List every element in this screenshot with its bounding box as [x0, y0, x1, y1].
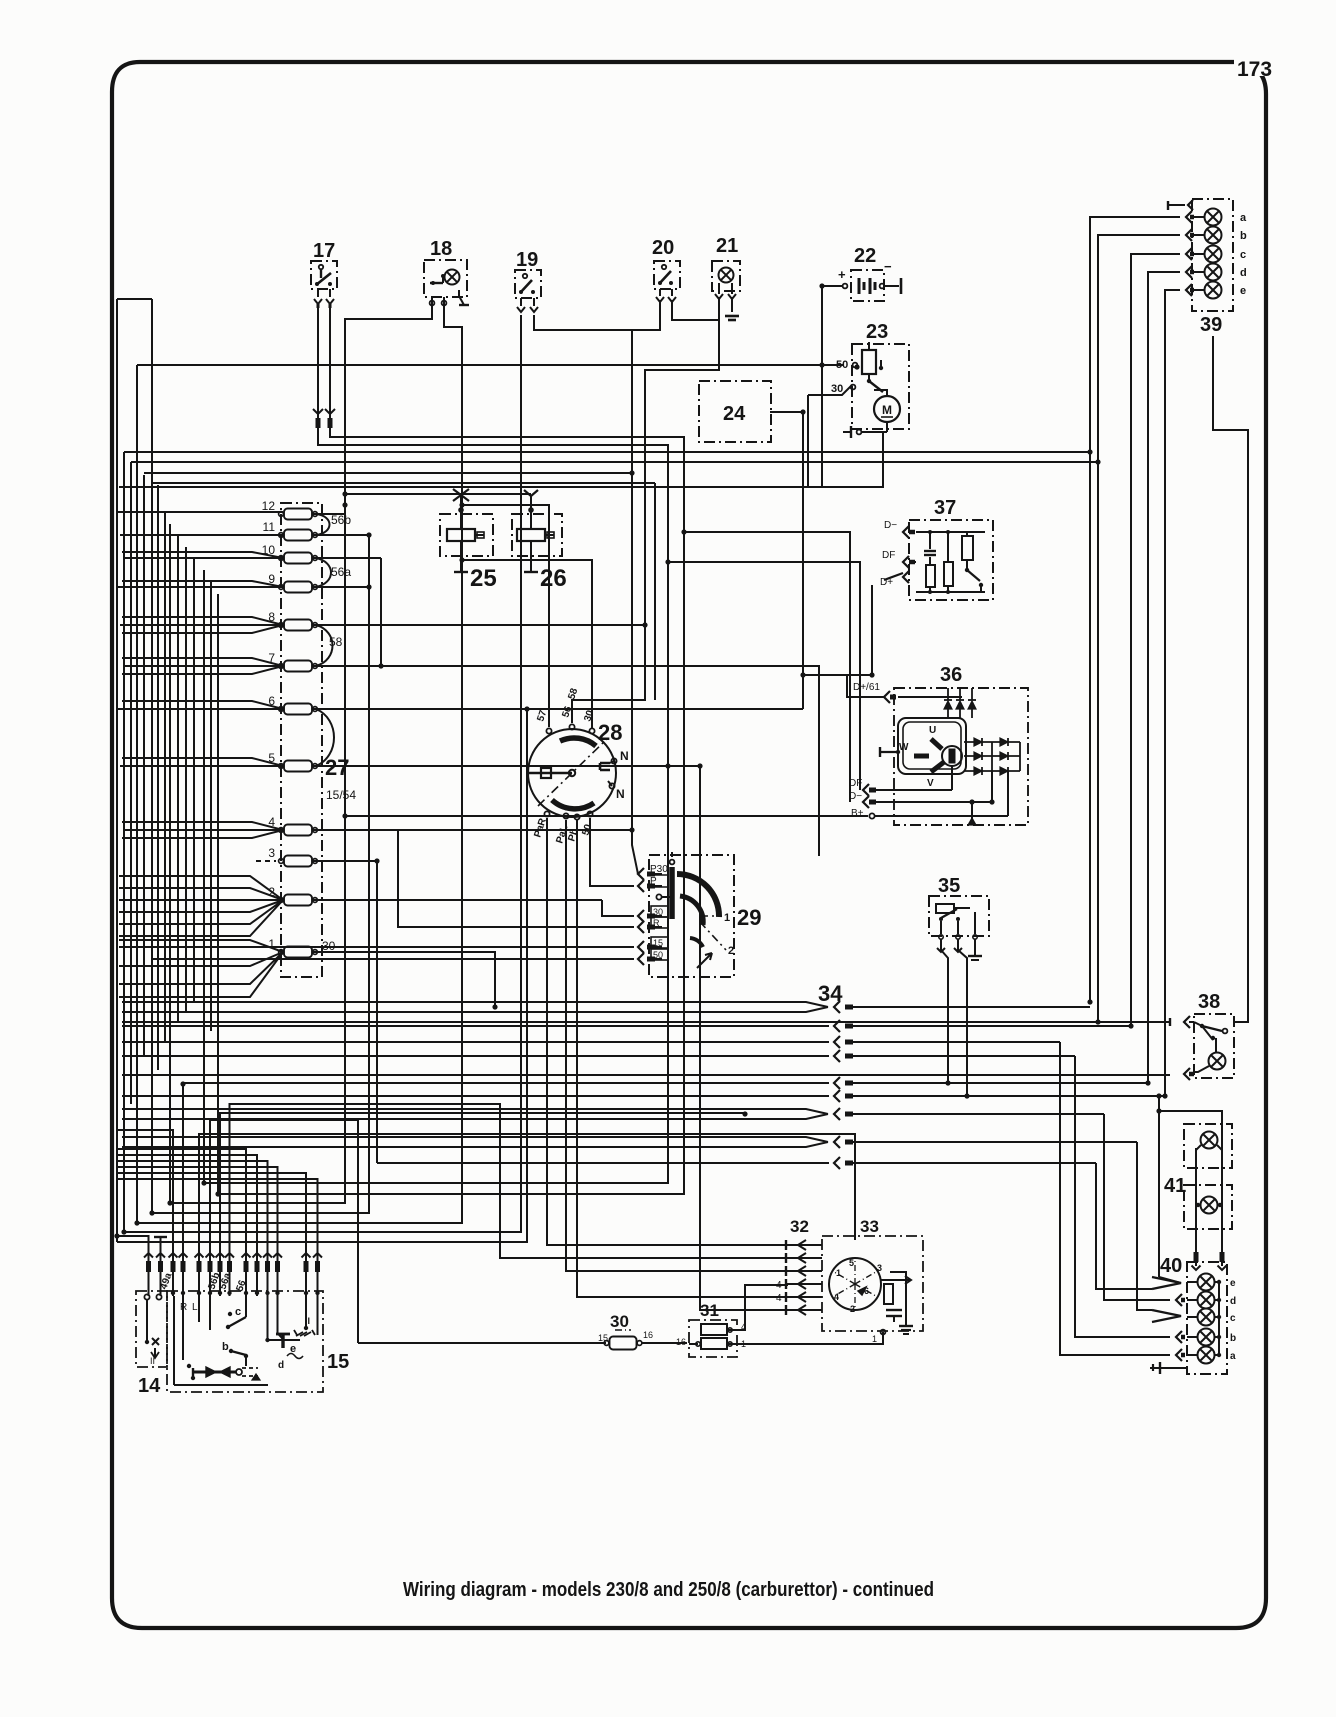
wire vertical x131: [130, 462, 132, 1104]
svg-text:−: −: [884, 259, 892, 274]
lamp cluster 39: [1168, 199, 1247, 311]
fuse unit 31: [689, 1320, 739, 1357]
svg-text:30: 30: [610, 1312, 629, 1331]
bus wire row y1075: [122, 1074, 1170, 1076]
wire fuse5 out: [313, 765, 700, 767]
fuse 12: [284, 509, 312, 520]
svg-text:50: 50: [653, 950, 663, 960]
switch 19: [515, 270, 541, 312]
svg-text:D+: D+: [880, 577, 893, 588]
wire motor ground feed: [119, 432, 883, 487]
lamp cluster 40: [1150, 1262, 1236, 1374]
svg-text:4: 4: [834, 1292, 839, 1302]
bus wire row y1142 right segment: [853, 1141, 1137, 1143]
svg-text:L: L: [192, 1302, 198, 1313]
terminal P switch29: [638, 880, 644, 892]
svg-text:30: 30: [653, 907, 663, 917]
svg-text:II: II: [150, 1356, 155, 1366]
svg-text:1: 1: [741, 1339, 746, 1349]
svg-text:b: b: [1240, 230, 1247, 242]
wire fan-in fuse 2: [119, 876, 283, 936]
wire vertical x165: [164, 512, 166, 1042]
bus wire row y1096 right segment: [853, 1095, 1165, 1097]
svg-text:2: 2: [728, 945, 734, 957]
fuse 8: [284, 620, 312, 631]
svg-text:e: e: [1240, 285, 1246, 297]
regulator 37: [884, 520, 993, 600]
wire to alternator D+61: [803, 675, 884, 697]
svg-text:b: b: [222, 1341, 229, 1353]
inline connectors below switch 17: [313, 409, 323, 414]
bus wire row y1163: [377, 1162, 829, 1164]
svg-text:c: c: [1240, 249, 1246, 261]
wire vertical x137: [136, 365, 138, 1223]
svg-text:W: W: [899, 742, 909, 753]
svg-text:3: 3: [268, 846, 275, 860]
wire fuse11 out: [313, 534, 369, 536]
switch 17 turn signal: [311, 261, 337, 308]
wire vertical x144: [143, 475, 145, 1056]
distributor 33: [822, 1236, 923, 1334]
wire lamp harness a: [1090, 217, 1180, 1002]
wire switch20 junction to headlamp switch: [632, 330, 638, 874]
fuse 4: [284, 825, 312, 836]
bus wire row y1026 right segment: [853, 1025, 1131, 1027]
svg-text:25: 25: [470, 565, 497, 592]
bus wire row y1042 right segment: [853, 1041, 1060, 1043]
svg-text:D−: D−: [849, 791, 862, 802]
wire unit41 to unit40 right: [1221, 1124, 1223, 1266]
svg-text:5: 5: [268, 751, 275, 765]
wire fuse31-1 lead to distributor: [739, 1332, 883, 1344]
svg-text:56b: 56b: [331, 513, 351, 527]
wire row1142 to cluster40 c: [1137, 1142, 1152, 1310]
svg-text:18: 18: [430, 238, 452, 260]
bus wire row y1056 right segment: [853, 1055, 1075, 1057]
wire vertical x124: [123, 452, 125, 1232]
wire long top bus b: [131, 461, 1098, 463]
bus wire row y1083 right segment: [853, 1082, 1148, 1084]
wire fuse3 out: [313, 861, 377, 1163]
svg-text:P: P: [650, 876, 657, 887]
wire fuse1 out: [313, 952, 495, 1007]
svg-text:50: 50: [836, 359, 848, 371]
svg-text:5: 5: [849, 1258, 854, 1268]
wire fuse feed y766: [120, 765, 283, 767]
page number 173: [1234, 52, 1278, 76]
box 24: [699, 381, 771, 442]
wire unit35 lead1: [941, 944, 948, 1083]
svg-text:11: 11: [263, 520, 276, 534]
wire regulator DF feed: [668, 562, 860, 790]
fuse unit 25: [440, 514, 493, 572]
terminal 50 switch29: [638, 953, 644, 965]
svg-text:1: 1: [724, 912, 730, 924]
svg-text:16: 16: [643, 1330, 653, 1340]
svg-text:4: 4: [268, 815, 275, 829]
wire terminal 220 feed to coil fuse: [220, 1113, 745, 1251]
bus wire row y1142: [122, 1137, 828, 1147]
switch unit 15: [167, 1291, 323, 1392]
svg-text:4: 4: [741, 1322, 746, 1332]
svg-text:29: 29: [737, 905, 761, 930]
wire row6 feed to plug connector: [700, 766, 788, 1310]
wire switch19 left lead: [124, 315, 521, 1232]
fuse loop 56a: [316, 558, 331, 587]
svg-text:1: 1: [872, 1334, 877, 1344]
wire terminal 229 feed: [230, 1104, 789, 1258]
svg-text:d: d: [1240, 267, 1247, 279]
svg-text:35: 35: [938, 875, 960, 897]
terminal 30 switch29: [638, 910, 644, 922]
wire fuse10 out: [313, 558, 381, 666]
fuse loop 15-54: [316, 709, 334, 766]
connector arrow row y1142: [834, 1136, 840, 1148]
wire fuse4 out: [313, 829, 632, 831]
wire fuse6 out: [313, 708, 803, 710]
fuse loop 56b: [316, 514, 330, 535]
wire vertical x218: [217, 594, 219, 1194]
svg-text:56: 56: [560, 705, 574, 719]
bus wire row y1007: [122, 1002, 828, 1012]
svg-text:17: 17: [313, 240, 335, 262]
alternator 36: [863, 688, 1028, 825]
page border frame: [112, 62, 1266, 1628]
middle vertical 369: [152, 535, 369, 1213]
wire terminal 199 feed to distributor: [199, 1134, 855, 1251]
svg-text:Pb: Pb: [566, 827, 580, 843]
svg-text:d: d: [278, 1360, 284, 1371]
wire branch to lamps 41: [1159, 1111, 1222, 1124]
wire PaL lead: [566, 820, 788, 1271]
wire unit35 lead2: [958, 944, 967, 1096]
bus wire row y1007 right segment: [853, 1006, 1090, 1008]
svg-text:26: 26: [540, 565, 567, 592]
svg-text:b: b: [1230, 1333, 1236, 1344]
svg-text:2: 2: [850, 1304, 855, 1314]
fuse 10: [284, 553, 312, 564]
terminal arrows above units 14 and 15: [149, 1251, 318, 1296]
svg-text:R: R: [653, 918, 660, 928]
svg-text:a: a: [1230, 1351, 1236, 1362]
svg-text:c: c: [1230, 1313, 1236, 1324]
svg-text:56a: 56a: [331, 565, 351, 579]
wire switch18 right lead: [137, 301, 462, 1223]
wire switch17 right lead: [218, 303, 684, 1194]
svg-text:22: 22: [854, 245, 876, 267]
svg-text:N: N: [616, 787, 625, 801]
svg-text:16: 16: [676, 1337, 686, 1347]
wire vertical x117: [116, 299, 118, 1242]
wire fuse feed y587: [117, 586, 283, 588]
svg-text:D−: D−: [884, 520, 897, 531]
wire vertical x158: [157, 485, 159, 1070]
svg-text:6: 6: [268, 694, 275, 708]
svg-text:d: d: [1230, 1296, 1236, 1307]
wire fuse feed y535: [120, 534, 283, 536]
junction dots: [819, 362, 824, 367]
wire terminal 210 feed to fuse 30: [210, 1120, 358, 1343]
svg-text:50: 50: [580, 823, 594, 837]
svg-text:1: 1: [836, 1268, 841, 1278]
fuse loop 58: [316, 625, 333, 666]
fuse box 27 outline: [281, 503, 322, 977]
wire vertical x178: [177, 535, 179, 1021]
svg-text:36: 36: [940, 664, 962, 686]
wire vertical x204: [203, 570, 205, 1183]
wire PaR lead: [547, 818, 788, 1245]
wire row1114 to cluster40 d: [1104, 1114, 1170, 1300]
wire fuse feed y558: [123, 557, 283, 559]
wire row1163 to cluster40 e: [1096, 1163, 1152, 1289]
svg-text:PaR: PaR: [532, 816, 549, 839]
terminal 15 switch29: [638, 941, 644, 953]
svg-text:20: 20: [652, 237, 674, 259]
svg-text:30: 30: [322, 939, 336, 953]
wire long top bus a: [124, 451, 1090, 453]
fuse 3: [284, 856, 312, 867]
fuse 3 dashed feed: [256, 860, 276, 862]
svg-text:28: 28: [598, 720, 622, 745]
svg-text:15: 15: [653, 938, 663, 948]
svg-text:4: 4: [776, 1280, 782, 1291]
svg-text:15/54: 15/54: [326, 788, 356, 802]
wire ignition 30 feed: [462, 560, 592, 729]
wire regulator D+ feed: [871, 585, 873, 675]
wire switch18 left lead: [170, 301, 432, 1203]
wire vertical x194: [193, 558, 195, 1002]
switch 20: [654, 261, 680, 302]
connector arrow row y1114: [834, 1108, 840, 1120]
wire vertical x170: [169, 524, 171, 1203]
wire fuse feed y830: [123, 829, 283, 831]
middle vertical 527: [117, 709, 527, 1242]
svg-text:B+: B+: [851, 808, 864, 819]
bus wire row y1042: [122, 1041, 829, 1043]
wire row1056 to cluster40 b: [1075, 1056, 1170, 1337]
svg-text:M: M: [882, 403, 892, 417]
wire terminal 173 feed: [117, 1130, 173, 1251]
terminal R switch29: [638, 921, 644, 933]
battery capacitor 22: [838, 259, 901, 301]
wire fuse feed y666: [123, 665, 283, 667]
headlamp switch 29: [649, 852, 734, 977]
svg-text:2: 2: [268, 885, 275, 899]
flasher unit 14: [136, 1291, 167, 1367]
connector arrow row y1083: [834, 1077, 840, 1089]
svg-text:P30: P30: [650, 864, 668, 875]
svg-text:27: 27: [325, 755, 349, 780]
connector arrow row y1163: [834, 1157, 840, 1169]
connector arrow row y1096: [834, 1090, 840, 1102]
bus wire row y1096: [122, 1095, 829, 1097]
wire lamp21 right lead ground: [731, 297, 733, 312]
svg-text:31: 31: [700, 1301, 719, 1320]
terminal P30 switch29: [638, 868, 644, 880]
svg-text:38: 38: [1198, 991, 1220, 1013]
svg-text:V: V: [927, 778, 934, 789]
svg-text:58: 58: [329, 635, 343, 649]
fuse 11: [284, 530, 312, 541]
svg-text:39: 39: [1200, 314, 1222, 336]
wire fan-in fuse 1: [119, 940, 283, 997]
wire fuse30 to fuse31: [641, 1342, 687, 1344]
wire lamp harness e: [1165, 290, 1180, 1096]
svg-text:4: 4: [776, 1293, 782, 1304]
svg-text:3: 3: [877, 1263, 882, 1273]
svg-text:+: +: [838, 267, 846, 282]
wire top bus c: [144, 472, 632, 474]
lamp unit 41 upper: [1184, 1124, 1232, 1168]
connector block 32: [785, 1240, 787, 1250]
fuse unit 26: [512, 514, 562, 572]
lamp 21: [712, 261, 740, 299]
wire fuse feed y709: [117, 708, 283, 710]
svg-text:DF: DF: [882, 550, 895, 561]
wire lightswitch 15 feed: [119, 946, 634, 948]
connector arrow row y1042: [834, 1036, 840, 1048]
bus wire row y1022: [122, 1021, 1170, 1023]
connector arrow row y1056: [834, 1050, 840, 1062]
wire terminal 148 feed: [117, 1236, 149, 1251]
svg-text:24: 24: [723, 403, 746, 425]
svg-text:19: 19: [516, 249, 538, 271]
svg-text:32: 32: [790, 1217, 809, 1236]
connector junction X arrows: [453, 489, 469, 501]
switch 18 hazard with lamp: [424, 260, 469, 305]
svg-text:23: 23: [866, 321, 888, 343]
svg-text:40: 40: [1160, 1255, 1182, 1277]
svg-text:21: 21: [716, 235, 738, 257]
fuse 2: [284, 895, 312, 906]
wire lightswitch 50 feed: [152, 958, 634, 960]
svg-text:c: c: [235, 1306, 241, 1318]
wire vertical x211: [210, 582, 212, 1031]
relay 35: [929, 896, 989, 960]
svg-text:30: 30: [831, 383, 843, 395]
wire switch17 left lead: [204, 303, 668, 1183]
wire top bus d: [152, 483, 655, 700]
svg-text:D+/61: D+/61: [853, 682, 880, 693]
wire alternator B+ lead: [345, 815, 868, 817]
wire switch19 right lead: [534, 300, 660, 330]
wire starter 30 feed: [808, 385, 852, 487]
wire fuse feed y512: [117, 511, 283, 513]
wire terminal feed bundle: [117, 1149, 318, 1251]
wire row1042 to cluster40 a: [1060, 1042, 1170, 1355]
wire vertical x186: [185, 547, 187, 1012]
bus wire row y1083: [183, 1082, 829, 1084]
bus wire row y1114 right segment: [853, 1113, 1104, 1115]
fuse 1: [284, 947, 312, 958]
wire ignition 57 feed: [462, 505, 549, 727]
terminator 49a stop bar: [154, 1236, 167, 1238]
wire right edge feed: [1213, 336, 1248, 1022]
wire ignition 50 to lightswitch P: [590, 818, 634, 886]
connector arrow row y1007: [834, 1001, 840, 1013]
svg-text:58: 58: [566, 687, 580, 701]
fuse 30 inline: [610, 1337, 637, 1350]
svg-text:14: 14: [138, 1375, 161, 1397]
bus wire row y1114: [122, 1109, 828, 1119]
wire lamp harness c: [1131, 254, 1180, 1026]
wire regulator D- feed: [684, 532, 850, 802]
svg-text:33: 33: [860, 1217, 879, 1236]
bus wire row y1056: [122, 1055, 829, 1057]
svg-text:57: 57: [535, 709, 549, 723]
svg-text:DF: DF: [849, 778, 862, 789]
starter solenoid 23: [843, 342, 909, 438]
switch 38: [1170, 1014, 1234, 1080]
wire fuse feed y625: [120, 624, 283, 626]
wire fuse12 out to interior lamp fuses: [313, 494, 531, 514]
bus wire row y1026: [122, 1025, 829, 1027]
wire battery plus lead: [822, 286, 843, 487]
bus wire row y1163 right segment: [853, 1162, 1096, 1164]
wire fan-in diagonals upper fuses: [122, 552, 283, 838]
wire top-left corner: [117, 298, 152, 300]
svg-text:12: 12: [262, 499, 276, 513]
wire unit24 lead: [770, 412, 803, 709]
svg-text:41: 41: [1164, 1175, 1186, 1197]
wire fuse7 out to lightswitch: [313, 666, 819, 856]
svg-text:9: 9: [268, 572, 275, 586]
wire row1096 branch to cluster40 e upper: [1158, 1096, 1160, 1277]
connector arrow row y1026: [834, 1020, 840, 1032]
svg-text:15: 15: [327, 1351, 349, 1373]
svg-text:a: a: [1240, 212, 1247, 224]
svg-text:7: 7: [268, 651, 275, 665]
wire fuse2 out: [313, 899, 602, 901]
wire lamp21 left lead: [572, 297, 719, 723]
fuse 9: [284, 582, 312, 593]
wire Pb lead: [577, 820, 788, 1297]
wire fuse31-4 lead up: [739, 1285, 788, 1330]
wire lamp harness d: [1148, 272, 1180, 1083]
svg-text:10: 10: [262, 543, 276, 557]
wire fuse9 out: [313, 586, 369, 588]
fuse 5: [284, 761, 312, 772]
svg-text:15: 15: [598, 1333, 608, 1343]
fuse 6: [284, 704, 312, 715]
wire vertical x152: [151, 299, 153, 1213]
wire lightswitch R feed: [398, 830, 634, 927]
wire unit41 to unit40 left: [1195, 1148, 1197, 1266]
wire fuse8 out: [313, 624, 645, 626]
wire switch20 right lead: [672, 300, 719, 320]
svg-text:N: N: [620, 749, 629, 763]
svg-text:1: 1: [268, 937, 275, 951]
svg-text:e: e: [1230, 1278, 1236, 1289]
svg-text:8: 8: [268, 610, 275, 624]
svg-text:U: U: [929, 725, 936, 736]
wire fuse2 to lightswitch 30: [602, 900, 634, 916]
ignition starter switch 28: [528, 724, 617, 819]
lamp unit 41 lower: [1184, 1168, 1232, 1252]
svg-text:37: 37: [934, 497, 956, 519]
svg-text:30: 30: [582, 709, 596, 723]
wire lamp harness b: [1098, 235, 1180, 1022]
wire starter 50 feed: [137, 364, 844, 366]
fuse 7: [284, 661, 312, 672]
wire fuse30 left lead: [358, 1342, 606, 1344]
wire terminal 183 feed to connector row: [182, 1083, 184, 1251]
